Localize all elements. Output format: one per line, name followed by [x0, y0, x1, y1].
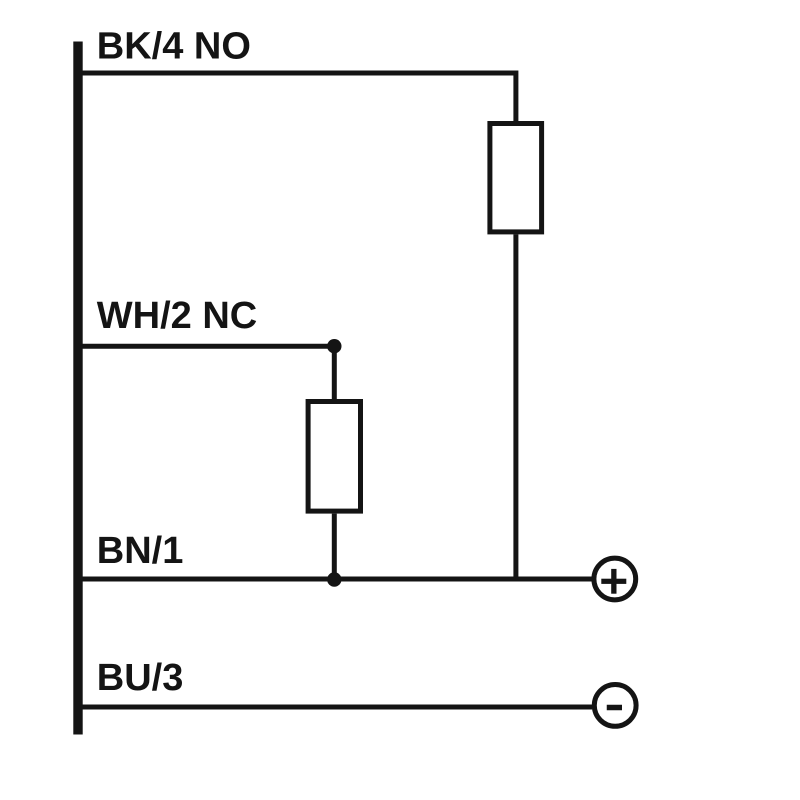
resistor (NC load) — [308, 402, 360, 512]
terminal L- circle — [594, 685, 636, 727]
wire BN/1: bus bar to plus terminal — [74, 577, 592, 582]
svg-text:BN/1: BN/1 — [97, 530, 184, 572]
wire BU/3: bus bar to minus terminal — [74, 705, 592, 710]
wire WH/2 NC: bus bar to junction — [74, 344, 334, 349]
junction dot on WH/2 NC — [327, 339, 341, 353]
wire: junction to resistor (NC load) top — [332, 346, 337, 401]
common bus bar (device side rail) — [73, 42, 82, 735]
wire: resistor (NO load) bottom to BN/1 line — [513, 234, 518, 579]
minus sign of L- terminal — [607, 705, 622, 711]
wire: resistor (NC load) bottom to BN/1 line — [332, 514, 337, 579]
svg-text:BU/3: BU/3 — [97, 657, 184, 699]
junction dot on BN/1 — [327, 572, 341, 586]
resistor (NO load) — [490, 124, 542, 232]
svg-text:WH/2 NC: WH/2 NC — [97, 295, 257, 337]
svg-text:BK/4 NO: BK/4 NO — [97, 25, 251, 67]
plus sign of L+ terminal — [601, 579, 626, 584]
terminal L+ circle — [594, 558, 636, 600]
wire BK/4 NO: bus bar to resistor (NO load) top — [74, 73, 516, 123]
